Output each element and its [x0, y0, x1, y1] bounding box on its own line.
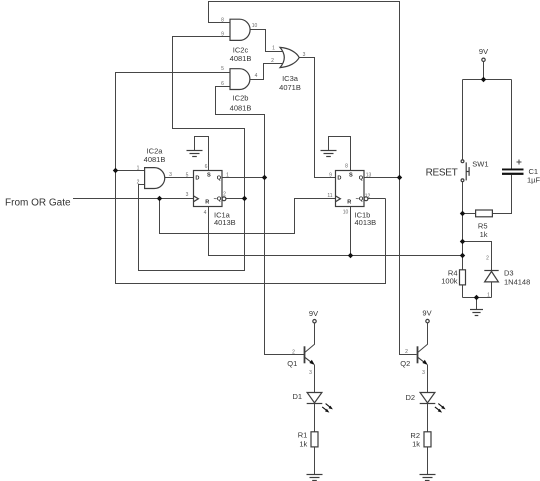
- wire IC1b ~Q output pin 12: [368, 198, 386, 200]
- wire IC1b Q output pin 13: [364, 177, 400, 179]
- svg-text:D3: D3: [504, 269, 514, 278]
- wire D2 to R2: [427, 404, 429, 432]
- svg-text:10: 10: [252, 23, 258, 29]
- wire IC1a Q to Q1 base: [265, 178, 305, 355]
- wire IC1b ~Q to IC2a pin 1 and IC2b pin 5: [116, 73, 386, 284]
- wire IC2a pin 1 branch: [116, 170, 145, 172]
- junction clock line: [157, 196, 162, 201]
- wire IC1b R pin 10 branch: [350, 207, 352, 256]
- switch SW1: [461, 160, 469, 182]
- wire IC1b S pin 8 to ground: [329, 137, 351, 171]
- junction IC1a Q: [262, 175, 267, 180]
- wire IC1b Q to IC2c pin 8 (top loop): [209, 2, 400, 178]
- wire From OR Gate to IC1a clock pin 3: [73, 198, 194, 200]
- wire IC1b Q to Q2 base: [400, 178, 417, 355]
- wire junction to R5 left: [463, 213, 476, 215]
- svg-text:1: 1: [137, 165, 140, 171]
- svg-text:3: 3: [169, 172, 172, 178]
- wire clock branch to IC1b pin 11: [160, 199, 336, 234]
- flip-flop IC1a ~Q bubble: [222, 197, 226, 201]
- svg-text:9V: 9V: [309, 309, 318, 318]
- svg-text:Q2: Q2: [400, 359, 410, 368]
- svg-text:3: 3: [303, 52, 306, 58]
- junction D3 top: [460, 239, 465, 244]
- svg-text:4013B: 4013B: [214, 218, 236, 227]
- svg-text:1k: 1k: [480, 230, 488, 239]
- svg-text:100k: 100k: [441, 277, 458, 286]
- svg-text:From OR Gate: From OR Gate: [5, 198, 71, 209]
- junction 9V rail: [481, 77, 486, 82]
- svg-text:11: 11: [327, 193, 332, 199]
- wire IC1a Q to IC2b pin 6: [216, 87, 265, 178]
- svg-text:9V: 9V: [479, 47, 488, 56]
- svg-text:2: 2: [271, 58, 274, 64]
- wire IC3a output to IC1b D pin 9: [299, 58, 335, 178]
- transistor Q1: [305, 346, 315, 365]
- svg-text:12: 12: [365, 194, 371, 200]
- wire IC1a S pin 6 to ground: [195, 137, 209, 171]
- svg-text:2: 2: [137, 179, 140, 185]
- svg-text:2: 2: [292, 350, 295, 356]
- svg-text:~Q: ~Q: [356, 196, 364, 202]
- svg-text:Q1: Q1: [287, 359, 297, 368]
- flip-flop IC1a clock triangle: [194, 196, 199, 202]
- svg-text:1µF: 1µF: [527, 176, 540, 185]
- wire R1 to ground: [314, 447, 316, 475]
- svg-text:IC3a: IC3a: [282, 74, 299, 83]
- svg-text:RESET: RESET: [426, 168, 458, 179]
- capacitor C1: [502, 160, 524, 175]
- flip-flop IC1a box: [194, 171, 223, 207]
- junction ground R4/D3: [474, 295, 479, 300]
- and-gate IC2c: [230, 19, 250, 40]
- svg-text:Q: Q: [217, 176, 222, 182]
- wire IC1a ~Q to IC2a pin 2: [139, 185, 245, 271]
- wire 9V supply to rail: [483, 62, 485, 80]
- svg-text:10: 10: [343, 210, 349, 216]
- wire R2 to ground: [427, 447, 429, 475]
- junction IC1b R: [348, 253, 353, 258]
- svg-text:IC2b: IC2b: [233, 94, 249, 103]
- svg-text:6: 6: [221, 81, 224, 87]
- svg-text:R1: R1: [298, 431, 308, 440]
- svg-text:4: 4: [255, 73, 258, 79]
- svg-text:C1: C1: [529, 167, 539, 176]
- junction IC1a ~Q: [242, 196, 247, 201]
- 9V terminal Q2: [422, 309, 431, 323]
- ground at IC1a S: [187, 151, 203, 157]
- svg-text:4071B: 4071B: [279, 83, 301, 92]
- wire Q1 emitter to D1: [314, 365, 316, 393]
- wire D3 anode down: [491, 282, 493, 298]
- wire SW1 bottom to R4 top: [462, 182, 464, 270]
- wire junction to D3 cathode: [463, 242, 492, 271]
- junction IC1b Q: [397, 175, 402, 180]
- svg-text:8: 8: [221, 18, 224, 24]
- svg-text:R: R: [205, 199, 209, 205]
- flip-flop IC1b box: [336, 171, 365, 207]
- and-gate IC2a: [145, 168, 165, 189]
- wire ground stem below R4/D3: [476, 298, 478, 310]
- wire rail to C1 top: [511, 80, 513, 169]
- ground below R2: [420, 475, 436, 481]
- svg-text:1N4148: 1N4148: [504, 277, 530, 286]
- svg-text:4081B: 4081B: [230, 104, 252, 113]
- wire IC2b output to IC3a pin 2: [250, 64, 283, 80]
- svg-text:3: 3: [186, 192, 189, 198]
- wire D1 to R1: [314, 404, 316, 432]
- 9V terminal top right: [479, 47, 488, 62]
- svg-text:9: 9: [221, 31, 224, 37]
- LED D2: [420, 393, 446, 413]
- svg-text:SW1: SW1: [472, 160, 488, 169]
- svg-text:2: 2: [223, 191, 226, 197]
- 9V terminal Q1: [309, 309, 318, 323]
- junction reset line: [460, 253, 465, 258]
- wire bottom R4-D3 link: [463, 297, 492, 299]
- ground at IC1b S: [321, 151, 337, 157]
- resistor R1: [311, 432, 318, 447]
- wire IC1a R pin 4 to reset line: [209, 207, 463, 256]
- svg-text:1k: 1k: [412, 439, 420, 448]
- svg-text:9: 9: [329, 172, 332, 178]
- svg-text:D: D: [195, 176, 199, 182]
- wire R5 right to C1 bottom: [492, 175, 511, 214]
- svg-text:D2: D2: [406, 393, 416, 402]
- wire IC2c output to IC3a pin 1: [250, 30, 283, 52]
- resistor R5: [476, 210, 493, 217]
- svg-text:3: 3: [309, 370, 312, 376]
- svg-text:3: 3: [422, 370, 425, 376]
- transistor Q2: [418, 346, 428, 365]
- svg-text:4013B: 4013B: [355, 218, 377, 227]
- wire 9V to Q2 collector: [418, 323, 428, 353]
- wire R4 bottom to ground line: [462, 285, 464, 298]
- svg-text:~Q: ~Q: [214, 196, 222, 202]
- svg-text:1: 1: [226, 172, 229, 178]
- svg-text:5: 5: [186, 172, 189, 178]
- wire IC1a Q output pin 1: [222, 177, 265, 179]
- svg-text:4: 4: [204, 210, 207, 216]
- diode D3: [484, 271, 498, 282]
- svg-text:D: D: [337, 176, 341, 182]
- svg-text:Q: Q: [359, 176, 364, 182]
- wire IC2a output to IC1a D pin 5: [165, 177, 194, 179]
- wire IC2c pin 9 from IC1a ~Q: [173, 37, 245, 199]
- LED D1: [307, 393, 333, 413]
- resistor R2: [424, 432, 431, 447]
- wire top-right rail: [463, 79, 512, 81]
- svg-text:13: 13: [366, 172, 372, 178]
- wire Q2 emitter to D2: [427, 365, 429, 393]
- svg-text:R5: R5: [478, 222, 488, 231]
- svg-text:6: 6: [205, 164, 208, 170]
- svg-text:1: 1: [487, 293, 490, 299]
- flip-flop IC1b clock triangle: [336, 196, 341, 202]
- svg-text:R: R: [347, 199, 351, 205]
- svg-text:8: 8: [345, 164, 348, 170]
- svg-text:9V: 9V: [422, 309, 431, 318]
- ground below R1: [307, 475, 323, 481]
- svg-text:1: 1: [272, 46, 275, 52]
- svg-text:2: 2: [405, 349, 408, 355]
- svg-text:D1: D1: [293, 392, 303, 401]
- svg-text:2: 2: [486, 256, 489, 262]
- svg-text:5: 5: [221, 66, 224, 72]
- resistor R4: [460, 270, 466, 285]
- or-gate IC3a: [280, 47, 299, 67]
- junction R5 left: [460, 211, 465, 216]
- wire IC1a ~Q output pin 2: [226, 198, 245, 200]
- wire 9V to Q1 collector: [305, 323, 315, 352]
- ground below R4/D3: [470, 310, 483, 316]
- svg-text:4081B: 4081B: [230, 54, 252, 63]
- junction IC2a pin1 / IC2b pin5 net: [113, 168, 118, 173]
- wire rail to SW1: [462, 80, 464, 160]
- flip-flop IC1b ~Q bubble: [364, 197, 368, 201]
- svg-text:S: S: [207, 173, 211, 179]
- and-gate IC2b: [230, 69, 250, 90]
- svg-text:1k: 1k: [299, 439, 307, 448]
- svg-text:S: S: [349, 173, 353, 179]
- svg-text:4081B: 4081B: [144, 155, 166, 164]
